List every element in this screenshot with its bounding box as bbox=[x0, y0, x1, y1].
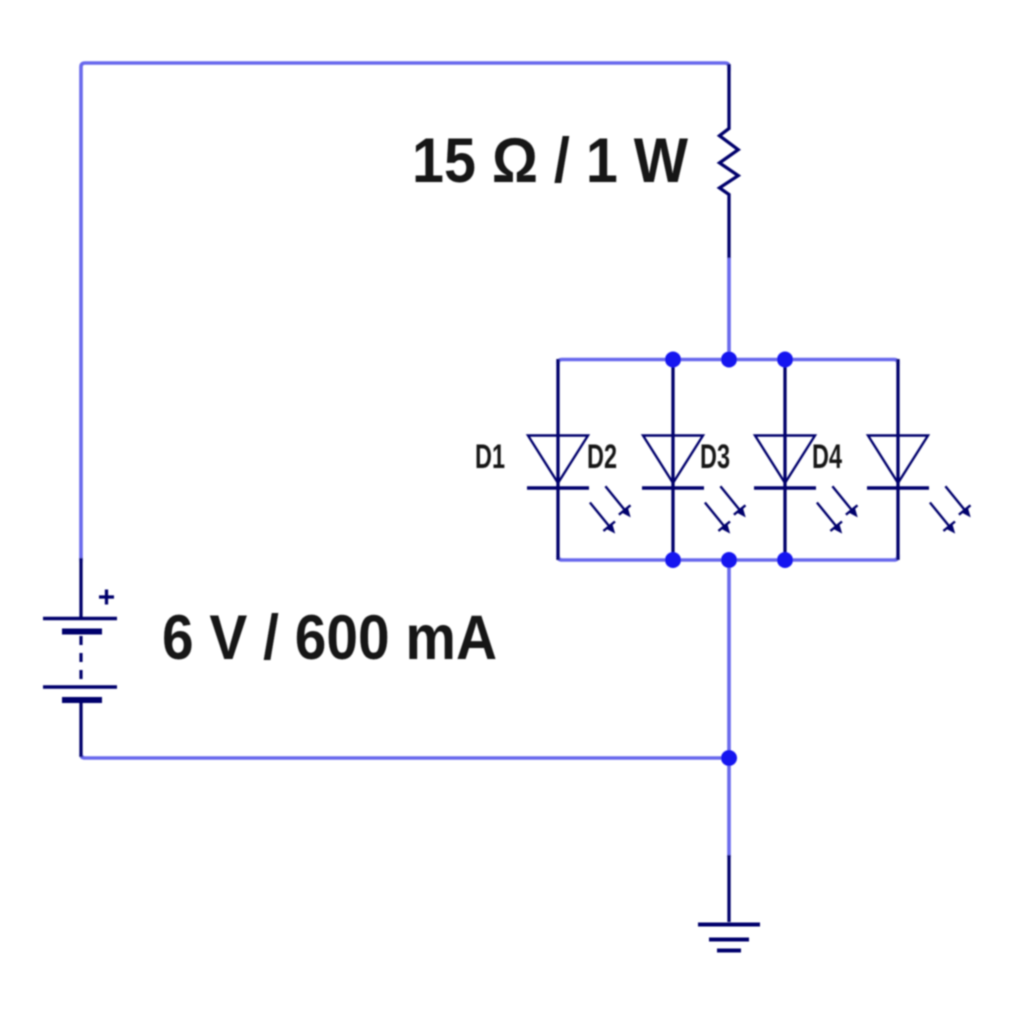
svg-text:D3: D3 bbox=[700, 438, 730, 476]
svg-text:D4: D4 bbox=[812, 438, 842, 476]
svg-text:6 V / 600 mA: 6 V / 600 mA bbox=[162, 603, 497, 673]
svg-text:D1: D1 bbox=[475, 438, 505, 476]
svg-text:15 Ω / 1 W: 15 Ω / 1 W bbox=[412, 126, 688, 196]
svg-text:D2: D2 bbox=[587, 438, 617, 476]
